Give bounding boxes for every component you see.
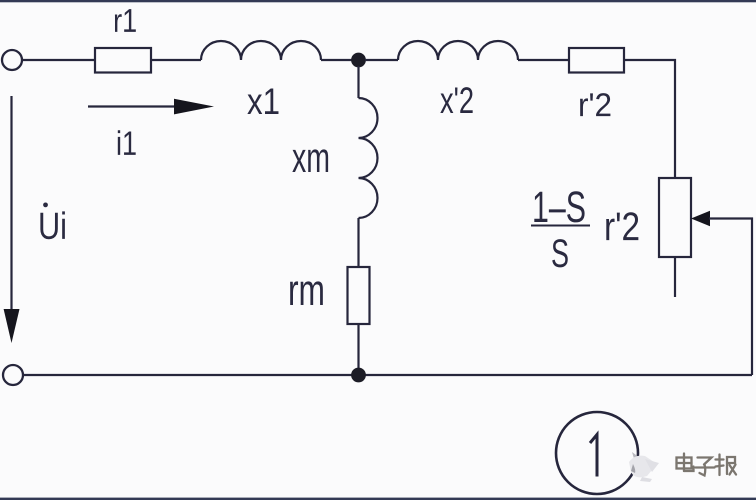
inductor x1 <box>201 41 321 60</box>
wire x'2 to r'2 <box>518 59 569 61</box>
stub wire below variable resistor <box>674 257 676 297</box>
variable resistor (1-S)/S r'2 <box>659 178 691 257</box>
char 子 <box>696 458 715 476</box>
wiper wire to right and down to bottom rail <box>709 219 752 376</box>
Ui arrowhead (down) <box>4 309 20 343</box>
figure number digit 1 <box>590 435 597 477</box>
fraction bar of (1-S)/S <box>531 225 590 227</box>
svg-text:rm: rm <box>288 266 325 315</box>
svg-text:xm: xm <box>292 134 330 181</box>
svg-text:r'2: r'2 <box>578 86 612 123</box>
svg-text:r'2: r'2 <box>604 205 640 249</box>
node B (bottom junction) <box>351 368 366 383</box>
resistor rm <box>348 267 370 324</box>
char 报 <box>716 455 737 476</box>
resistor r1 <box>95 48 151 73</box>
svg-text:1–S: 1–S <box>532 183 586 232</box>
svg-text:r1: r1 <box>113 2 137 39</box>
dot above U of Ui <box>43 202 48 207</box>
wiper arrowhead <box>691 211 710 226</box>
svg-text:i1: i1 <box>116 125 137 163</box>
svg-text:Ui: Ui <box>38 206 67 248</box>
bottom border bar <box>0 498 756 500</box>
inductor x'2 <box>398 41 518 60</box>
terminal T1 (top-left input) <box>2 50 22 70</box>
bottom rail wire <box>24 374 753 376</box>
watermark text 电子报 <box>677 454 737 476</box>
i1 arrowhead <box>174 99 214 115</box>
watermark logo icon <box>629 452 659 482</box>
figure number circle <box>556 412 638 494</box>
wire r1 to x1 <box>151 59 201 61</box>
wire node A to x'2 <box>365 59 398 61</box>
char 电 <box>677 454 694 472</box>
node A (top junction) <box>351 53 366 68</box>
top border bar <box>0 0 756 2</box>
svg-text:x1: x1 <box>247 81 280 122</box>
terminal T2 (bottom-left) <box>3 365 23 385</box>
wire T1 to r1 <box>23 59 96 61</box>
i1 current arrow line <box>88 105 178 107</box>
wire node A down to xm <box>357 66 359 98</box>
resistor r'2 <box>569 48 624 73</box>
svg-text:S: S <box>551 232 569 276</box>
inductor xm <box>359 98 378 218</box>
wire xm to rm <box>357 218 359 267</box>
wire rm to node B <box>357 324 359 370</box>
svg-text:x'2: x'2 <box>440 80 474 121</box>
Ui voltage line <box>10 96 12 309</box>
wire x1 to node A <box>321 59 352 61</box>
wire r'2 to right corner, down to variable resistor <box>624 60 675 178</box>
